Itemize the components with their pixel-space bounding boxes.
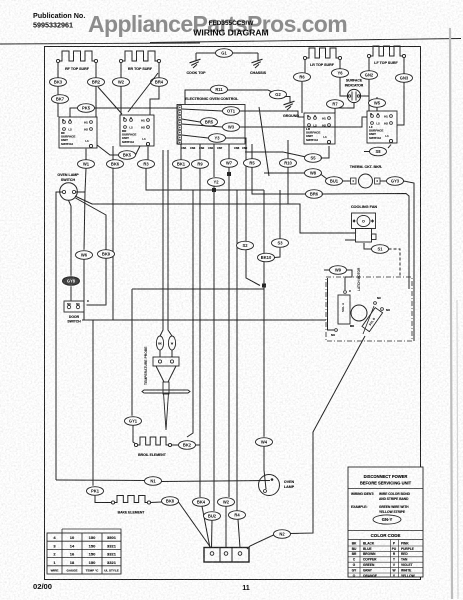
label oval S8 xyxy=(370,147,387,156)
wire W8 link xyxy=(264,172,306,174)
label oval BR6 xyxy=(306,190,323,199)
label oval G2 xyxy=(270,90,287,99)
label oval S1 xyxy=(372,245,389,254)
switch RF surface unit xyxy=(59,117,97,148)
heating element bake xyxy=(113,496,149,503)
wire W8 stub xyxy=(321,174,328,179)
label oval R10 xyxy=(280,159,297,168)
wire RF left lead xyxy=(57,63,59,78)
wire RF right lead xyxy=(95,63,97,78)
label oval Y6 xyxy=(332,69,349,78)
wire PK1 to bake xyxy=(95,495,111,502)
wire BK8 diag to block xyxy=(179,502,212,548)
label oval R9 xyxy=(192,160,209,169)
probe connector block xyxy=(153,357,179,366)
wire BK7 to switch RF xyxy=(57,103,59,117)
label oval Y2 xyxy=(208,178,225,187)
junction bus y190 xyxy=(212,188,216,192)
label oval BR2 xyxy=(88,78,105,87)
wire RR right lead xyxy=(158,63,160,78)
wire R4 feed xyxy=(236,190,238,511)
label oval W6 xyxy=(76,251,93,260)
wire CN2 down xyxy=(213,144,215,177)
label oval S5 xyxy=(305,154,322,163)
wire S3 feed xyxy=(279,190,281,239)
probe needle xyxy=(164,393,169,430)
wire breaker to GY3 xyxy=(380,180,387,182)
label oval GY8 dark xyxy=(63,277,80,286)
wire control pin6 to Y3 xyxy=(182,135,208,138)
wire lamp switch bus 204 xyxy=(75,196,356,233)
latch switch xyxy=(362,308,383,332)
heating element RF top surface xyxy=(58,51,96,61)
latch assembly enclosure xyxy=(326,277,412,341)
wire RF L1 down xyxy=(85,149,87,160)
oven lamp xyxy=(259,475,280,496)
label oval W2b xyxy=(218,498,235,507)
wire control pin3 to BR5 xyxy=(182,119,200,122)
wire W9 to latch box xyxy=(345,270,352,290)
wire bus 190 right xyxy=(263,190,265,285)
wire W2 lead down xyxy=(120,86,122,115)
wire W6 to bus 320 xyxy=(83,259,85,320)
wire N1 to oven lamp xyxy=(162,481,271,482)
wire S1 to latch box xyxy=(389,249,401,277)
heating element LR top surface xyxy=(305,48,340,58)
control board terminal strip P1-P8 xyxy=(178,106,182,110)
probe cone xyxy=(156,366,164,382)
wire Y3 down bus xyxy=(226,138,247,241)
label oval R3 xyxy=(138,160,155,169)
wire R5 down xyxy=(252,167,306,194)
wire R10 to bus204 xyxy=(287,167,289,204)
wire S8 stub xyxy=(364,151,370,153)
label oval BK7 xyxy=(52,95,69,104)
probe terminal right xyxy=(168,336,175,350)
label oval W5 xyxy=(369,99,386,108)
label oval N1 xyxy=(145,477,162,486)
latch motor xyxy=(351,305,367,321)
wire W4 lamp top xyxy=(264,446,266,489)
wire LF L1 to S8 xyxy=(388,145,391,148)
label oval N2 xyxy=(274,530,291,539)
wire CN5 down xyxy=(251,144,253,159)
wire Y6 to indicator xyxy=(340,77,348,96)
wire W9 feed xyxy=(324,269,330,271)
wire control ground run xyxy=(185,90,272,104)
wire RR L1 down xyxy=(147,147,149,160)
label oval W8 xyxy=(305,169,322,178)
wire latch diagonal long xyxy=(313,336,365,531)
label oval BK1 xyxy=(173,160,190,169)
wire probe right lead xyxy=(168,150,172,336)
wire Y2 long down xyxy=(213,186,215,511)
wire G2 to ground xyxy=(285,97,291,103)
wire CN7 down xyxy=(228,144,230,159)
wire BU1 to breaker xyxy=(343,180,351,182)
wire LR right lead xyxy=(339,60,341,69)
wire diagonal BR2 to RR switch xyxy=(98,87,122,114)
junction bus 289 xyxy=(262,284,266,288)
wire R10 down xyxy=(287,140,289,159)
wire W5 stub xyxy=(376,97,378,111)
wire diagonal RR switch to element xyxy=(128,73,158,112)
label oval OT1 xyxy=(223,107,240,116)
wire W1 down xyxy=(76,168,86,192)
label oval W1 xyxy=(78,160,95,169)
switch RR surface unit xyxy=(120,115,154,146)
wire S5 to LR L1 xyxy=(321,146,330,158)
label oval BK9 xyxy=(98,250,115,259)
label oval BR5 xyxy=(201,118,218,127)
label oval BK3 xyxy=(50,78,67,87)
wire bake right xyxy=(151,501,162,504)
wire broil right xyxy=(172,444,179,446)
label oval Y3 xyxy=(209,134,226,143)
wire R6 to switch LR xyxy=(301,81,303,113)
wire GY3 right down xyxy=(404,181,415,341)
label oval PK5 with wire xyxy=(70,108,177,117)
wire R4 to block xyxy=(238,519,240,548)
label oval BU1 xyxy=(326,177,343,186)
wire R9 long down xyxy=(199,168,201,497)
wire indicator bottom xyxy=(335,103,354,113)
wire GY8 to door switch xyxy=(70,286,72,301)
label oval GN2 xyxy=(361,71,378,80)
wire CN3 down xyxy=(199,144,201,160)
junction CN7 xyxy=(227,172,231,176)
wire RR bottom down xyxy=(112,146,114,160)
wire control pin4 to W3 xyxy=(182,124,222,127)
wire N2 run xyxy=(291,531,314,534)
wire probe terms to connector xyxy=(159,350,161,357)
label oval BK8 xyxy=(162,497,179,506)
wire BK9 to door C xyxy=(87,258,107,305)
heating element RR top surface xyxy=(121,51,159,61)
wire lamp switch diagonal xyxy=(76,198,107,250)
power terminal block xyxy=(204,548,249,563)
header separator line xyxy=(0,43,200,44)
ground cook top xyxy=(190,59,201,68)
wire LR left lead xyxy=(304,60,306,73)
wire fan bottom to S1 xyxy=(364,243,372,249)
label oval PK1 xyxy=(87,487,104,496)
wire R3 to bus xyxy=(146,168,264,190)
wire OT1 to LR switch xyxy=(240,111,305,117)
wire BR6 to right xyxy=(322,194,410,290)
latch solenoid xyxy=(338,295,350,324)
label oval R5 xyxy=(244,159,261,168)
heating element LF top surface xyxy=(369,46,404,56)
label oval S2 xyxy=(237,241,254,250)
wire S2 down xyxy=(246,250,260,286)
wire RR left lead xyxy=(120,63,122,78)
wire GN2 to switch LF xyxy=(368,79,370,111)
label oval BR4 xyxy=(151,78,168,87)
label oval GY1 xyxy=(125,417,142,426)
wire BK2 feed from bus xyxy=(187,190,193,437)
page edge shadow xyxy=(450,28,452,599)
label oval R7 xyxy=(327,100,344,109)
switch LF surface unit xyxy=(367,111,397,143)
wire CN4 down xyxy=(180,144,182,160)
wire ground cluster xyxy=(196,52,216,54)
wire W2b to block xyxy=(225,506,227,548)
wire bus y289 xyxy=(132,288,264,290)
door switch xyxy=(64,301,84,312)
heating element broil xyxy=(136,437,170,445)
wire bake feed xyxy=(92,320,94,486)
wire N2 to block xyxy=(247,535,274,549)
diagram border frame xyxy=(45,47,421,580)
wire ground diagonal xyxy=(259,107,269,176)
label oval R4 xyxy=(229,511,246,520)
label oval W7 xyxy=(221,159,238,168)
wire control pin1 to OT1 xyxy=(182,109,222,111)
label oval BK4 xyxy=(193,498,210,507)
ground chassis xyxy=(252,59,263,68)
wire GY1 to broil xyxy=(133,425,136,444)
label oval GN3 xyxy=(396,74,413,83)
label oval G1 xyxy=(216,49,233,58)
wire BR4 lead down xyxy=(150,86,159,115)
wire GN3 down to switch LF xyxy=(397,82,404,125)
switch LR surface unit xyxy=(304,113,335,144)
wire fan second lead xyxy=(345,239,356,241)
wire gauge table xyxy=(47,533,121,574)
label oval W2 xyxy=(113,78,130,87)
wire broil feed xyxy=(131,289,133,416)
wire indicator to LF switch xyxy=(360,96,369,111)
label oval BU2 xyxy=(204,512,221,521)
wire BU2 to block xyxy=(211,520,214,548)
label oval W3 xyxy=(223,123,240,132)
disconnect power and color code box xyxy=(348,467,423,577)
wire S3 down xyxy=(275,247,281,257)
label oval BK5 xyxy=(119,151,136,160)
wire lamp switch down xyxy=(69,200,72,275)
wire BK2 right xyxy=(196,444,201,446)
ground oven xyxy=(284,101,295,110)
wire W3 to LF switch xyxy=(240,117,368,127)
wire BK3 to BK7 xyxy=(57,86,59,94)
wire S5 link xyxy=(245,152,306,157)
wire LF right lead xyxy=(403,58,405,74)
wire W4 to lamp xyxy=(263,190,265,286)
wire lamp switch left long down xyxy=(56,192,63,480)
label oval BK6 xyxy=(107,160,124,169)
wire BK5 link xyxy=(97,145,119,155)
wire W7 long down xyxy=(228,167,230,497)
label oval GY3 xyxy=(387,177,404,186)
wire bus y480 xyxy=(56,479,145,482)
label oval W4 xyxy=(256,438,273,447)
probe crossbar xyxy=(142,390,190,393)
probe terminal left xyxy=(156,336,163,350)
label oval BK2 xyxy=(179,441,196,450)
wire BR2 lead down xyxy=(95,86,97,117)
wire BK4 to block xyxy=(202,506,210,548)
label oval R11 xyxy=(211,85,228,94)
wire bus y320 xyxy=(82,319,326,321)
wire BK1 to bus xyxy=(180,168,182,190)
wire latch NO loop xyxy=(328,278,335,330)
label oval W9 xyxy=(330,266,347,275)
probe stem xyxy=(163,382,169,394)
label oval R6 xyxy=(294,73,311,82)
wire probe left lead xyxy=(160,150,163,336)
wire LF left lead xyxy=(368,58,370,71)
label oval S3 xyxy=(272,239,289,248)
label oval BK10 xyxy=(258,253,275,262)
wire BK6 down to bus xyxy=(112,168,114,320)
